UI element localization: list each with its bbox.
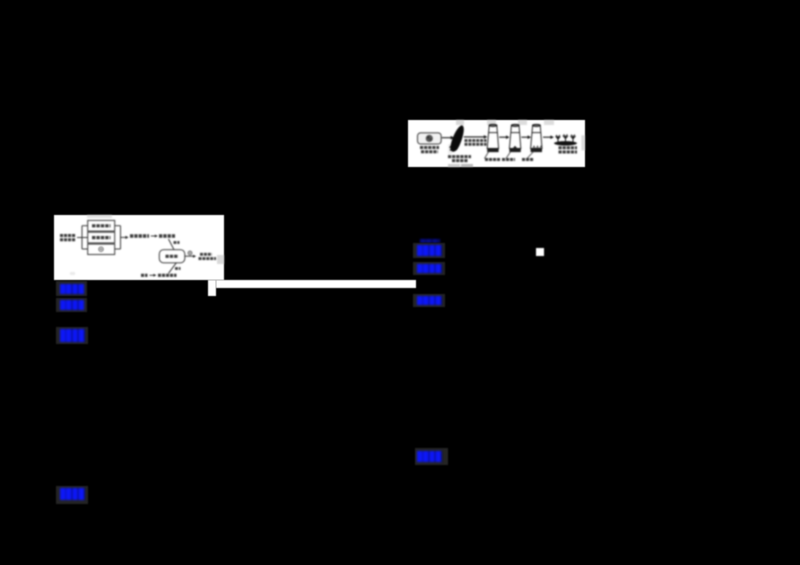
underline: vertical stub below figure 2 xyxy=(208,280,216,296)
jpeg band top xyxy=(87,215,112,218)
right collect lines xyxy=(115,225,121,227)
flask 3 xyxy=(531,124,542,148)
right product text 2 lines xyxy=(200,253,212,256)
labels under flasks with leaders xyxy=(485,151,490,159)
arrow leaf to flask1 with caption xyxy=(464,136,485,138)
box 1 xyxy=(88,220,115,231)
diagonal to fermenter with label xyxy=(169,239,175,250)
flask 2 xyxy=(509,124,520,148)
bottom text row xyxy=(141,274,148,277)
arrow 1-2 xyxy=(499,136,506,138)
jpeg artifact bands top xyxy=(456,120,464,125)
box 2 xyxy=(88,232,115,243)
diagonal from bottom with label xyxy=(169,263,177,274)
blue answer link B4 xyxy=(56,486,88,504)
underline: long white blank line xyxy=(216,280,416,288)
blue answer link R3 xyxy=(413,294,445,307)
arrow dish to leaf xyxy=(442,137,451,139)
petri dish with explant xyxy=(418,133,442,144)
leaf (dark blob) xyxy=(451,125,464,151)
jpeg artifact bands bottom xyxy=(448,164,460,167)
top text row: production strain -> expand culture xyxy=(130,234,149,237)
arrow out with circled symbol xyxy=(185,255,194,257)
plants on ground xyxy=(554,141,577,145)
faint blue fragment above R1 xyxy=(420,239,440,243)
fermenter rounded box xyxy=(159,250,185,263)
small white square (missing glyph box) xyxy=(536,248,544,256)
left source text 2 lines xyxy=(60,234,76,237)
blue answer link B3 xyxy=(56,327,88,344)
flask 1 xyxy=(487,124,498,148)
arrow to plants xyxy=(543,136,551,138)
figure 1: plant tissue culture process diagram xyxy=(408,120,585,167)
figure 2: fermentation engineering flow chart xyxy=(54,215,224,280)
arrow 2-3 xyxy=(521,136,528,138)
blue answer link B1 xyxy=(56,281,87,296)
caption under dish xyxy=(420,146,439,149)
caption under leaf xyxy=(448,155,471,158)
blue answer link B2 xyxy=(56,298,87,312)
box 3 with circled dot xyxy=(88,244,115,254)
grey patch right xyxy=(217,255,224,264)
brace into three method boxes xyxy=(77,237,88,239)
blue answer link R4 xyxy=(415,448,448,465)
caption right xyxy=(559,146,578,149)
blue answer link R2 xyxy=(413,262,445,275)
right grey strip xyxy=(581,135,584,150)
blue answer link R1 xyxy=(413,243,445,258)
